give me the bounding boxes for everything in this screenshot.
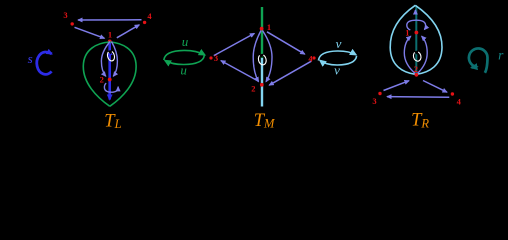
- svg-text:4: 4: [457, 97, 462, 107]
- black arrowhead on white loop (T_L): [107, 50, 112, 54]
- node 2 (T_R): [415, 73, 419, 77]
- inner ellipse left branch 1 to 2 (T_L): [101, 42, 110, 77]
- svg-text:2: 2: [100, 75, 104, 85]
- svg-text:v: v: [334, 62, 340, 77]
- v cycle bottom arc: [320, 56, 357, 65]
- node 4 (T_L): [143, 21, 146, 24]
- node 3 (T_R): [378, 92, 381, 95]
- node 2 (T_L): [108, 78, 112, 82]
- edge 2 to 3 (T_M): [221, 61, 259, 82]
- purple loop above node 1 (T_R): [407, 20, 426, 30]
- blue circular arrow (clockwise, gap right): [37, 52, 52, 74]
- svg-text:r: r: [498, 48, 504, 63]
- edge 1 to 4 (T_M): [267, 32, 305, 54]
- node 2 (T_M): [260, 83, 264, 87]
- svg-text:v: v: [336, 36, 342, 51]
- u cycle top arc: [164, 50, 205, 60]
- edge 2 to 4 (T_R): [423, 81, 447, 93]
- teal center line (T_R): [415, 6, 417, 73]
- node 4 (T_M): [312, 56, 315, 59]
- white small loop (T_R): [412, 51, 422, 62]
- svg-text:3: 3: [372, 96, 376, 106]
- teal circular arrow (counterclockwise, gap lower-left): [469, 48, 488, 72]
- edge 4 to 3 (T_R): [387, 96, 449, 99]
- inner arc left 1 to 2 (T_M): [253, 31, 261, 82]
- purple loop below node 2 (T_L): [104, 83, 118, 92]
- white small loop (T_L): [106, 50, 115, 61]
- edge 1 to 4 (T_L): [117, 25, 140, 38]
- inner ellipse right branch 2 to 1 (T_R): [417, 36, 427, 73]
- svg-text:1: 1: [267, 22, 271, 32]
- blue center arrow up 2 to 1 (T_L): [108, 43, 111, 98]
- green center line (T_M): [261, 7, 263, 58]
- slate up arrowhead at cusp (T_R): [414, 10, 416, 14]
- white small loop (T_M): [257, 54, 267, 66]
- inner ellipse right branch 1 to 2 (T_L): [112, 42, 118, 77]
- inner arc right 1 to 2 (T_M): [263, 31, 273, 82]
- v cycle top arc: [318, 51, 356, 61]
- svg-text:u: u: [182, 34, 189, 49]
- node 3 (T_L): [71, 22, 74, 25]
- black arrowhead on white loop (T_R): [414, 50, 419, 54]
- svg-text:2: 2: [414, 64, 418, 74]
- svg-text:3: 3: [214, 53, 218, 63]
- svg-text:3: 3: [63, 10, 67, 20]
- inner ellipse left branch 2 to 1 (T_R): [404, 36, 415, 73]
- u cycle bottom arc: [165, 56, 204, 65]
- svg-text:1: 1: [405, 28, 409, 38]
- edge 3 to 1 (T_M): [214, 33, 255, 55]
- edge 4 to 3 (T_L): [78, 19, 142, 21]
- node 1 (T_M): [260, 27, 264, 31]
- cyan teardrop loop (T_R): [390, 5, 442, 74]
- node 3 (T_M): [209, 56, 212, 59]
- svg-text:1: 1: [108, 29, 112, 39]
- black arrowhead on white loop (T_M): [259, 54, 264, 58]
- cyan center line (T_M): [261, 58, 263, 107]
- svg-text:2: 2: [251, 84, 255, 94]
- node 1 (T_R): [415, 31, 419, 35]
- svg-text:s: s: [28, 51, 33, 66]
- edge 4 to 2 (T_M): [269, 61, 311, 85]
- node 1 (T_L): [108, 40, 112, 44]
- node 4 (T_R): [451, 92, 454, 95]
- green teardrop loop (T_L): [83, 42, 136, 106]
- blue center arrow down 2 to cusp (T_L): [108, 92, 111, 100]
- edge 3 to 2 (T_R): [384, 81, 410, 91]
- edge 3 to 1 (T_L): [75, 27, 105, 38]
- svg-text:u: u: [180, 62, 187, 77]
